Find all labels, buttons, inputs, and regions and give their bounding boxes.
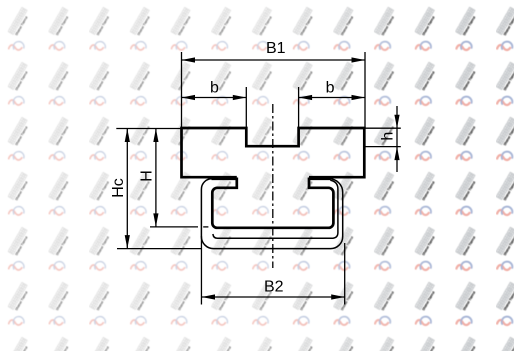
svg-text:B1: B1 [266, 40, 286, 57]
svg-text:Hc: Hc [110, 178, 127, 198]
svg-text:b: b [326, 79, 335, 96]
svg-text:B2: B2 [264, 279, 284, 296]
svg-text:h: h [380, 132, 397, 141]
svg-text:H: H [138, 170, 155, 182]
svg-text:b: b [210, 79, 219, 96]
